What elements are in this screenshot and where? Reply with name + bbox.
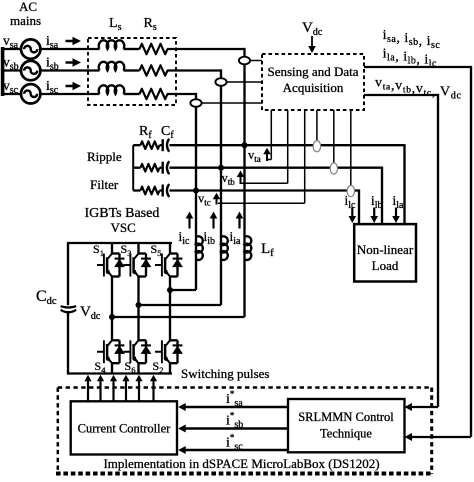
- svg-text:Ripple: Ripple: [87, 149, 122, 164]
- svg-text:Switching pulses: Switching pulses: [181, 366, 269, 381]
- svg-text:Non-linear: Non-linear: [357, 242, 414, 257]
- svg-text:IGBTs Based: IGBTs Based: [85, 206, 160, 221]
- svg-text:Implementation in dSPACE Micro: Implementation in dSPACE MicroLabBox (DS…: [103, 456, 379, 471]
- svg-text:Acquisition: Acquisition: [283, 80, 344, 95]
- svg-text:AC: AC: [19, 0, 37, 14]
- svg-text:SRLMMN Control: SRLMMN Control: [298, 410, 394, 424]
- svg-text:mains: mains: [10, 13, 41, 28]
- svg-text:VSC: VSC: [111, 220, 136, 235]
- svg-text:Current Controller: Current Controller: [78, 422, 172, 436]
- svg-text:Filter: Filter: [90, 177, 119, 192]
- svg-text:Technique: Technique: [320, 427, 372, 441]
- svg-text:Load: Load: [372, 258, 399, 273]
- svg-text:Sensing and Data: Sensing and Data: [268, 64, 359, 79]
